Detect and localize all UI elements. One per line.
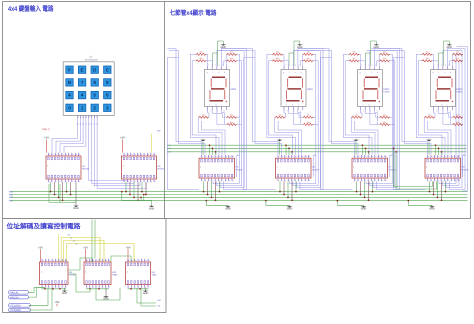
IC U9 74138 decoder [40, 259, 76, 289]
resistor network top-left of block 4 [422, 51, 433, 62]
net label +5V at latch block 3 [389, 154, 393, 177]
keypad key 8 [91, 79, 98, 86]
wire: horizontal green control line 1 [167, 144, 467, 146]
keypad key B [66, 79, 73, 86]
title: 4x4 keypad input circuit [8, 4, 54, 13]
IC U7 74HC573 latch block 3 [352, 155, 396, 182]
wire: latch outputs to bus block 2 [279, 181, 297, 201]
svg-text:9: 9 [132, 259, 133, 262]
svg-text:A0: A0 [68, 234, 70, 237]
svg-text:1: 1 [278, 179, 279, 182]
svg-text:2: 2 [80, 116, 81, 119]
wire: latch outputs to bus block 1 [203, 181, 221, 201]
svg-text:+5V: +5V [120, 136, 125, 140]
svg-text:8: 8 [302, 179, 303, 182]
keypad key 3 [104, 104, 111, 111]
svg-text:9: 9 [42, 259, 43, 262]
7-segment display LED1 [431, 64, 464, 113]
data bus net labels at left end [9, 191, 14, 203]
svg-text:9: 9 [87, 259, 88, 262]
svg-text:76143: 76143 [434, 64, 452, 67]
svg-text:HC574: HC574 [158, 168, 166, 171]
svg-text:PA(LA): PA(LA) [10, 292, 18, 295]
wire bus: segment lines resistors to latch block 1 [198, 117, 225, 155]
net label +5V at latch block 4 [462, 154, 466, 177]
svg-text:330: 330 [456, 114, 459, 117]
wire: left pair B cascade block 1 [168, 49, 206, 155]
svg-text:330: 330 [456, 51, 459, 54]
svg-text:+5V: +5V [125, 245, 130, 249]
svg-text:U2: U2 [82, 165, 86, 168]
svg-text:C1043: C1043 [456, 91, 463, 94]
svg-text:3: 3 [135, 285, 136, 288]
wire: tall left loop block 3 [320, 58, 352, 190]
svg-text:9: 9 [106, 80, 109, 85]
svg-text:330: 330 [200, 51, 203, 54]
wire bus: keypad rows to U2 (blue elbows) [52, 118, 86, 152]
resistor network top-left of block 3 [349, 51, 360, 62]
svg-text:5: 5 [441, 179, 442, 182]
svg-text:76143: 76143 [208, 64, 226, 67]
ground symbol small block 2 [277, 139, 283, 155]
keypad pins 1-8 with labels [76, 115, 99, 125]
svg-text:9: 9 [229, 179, 230, 182]
svg-text:U7: U7 [389, 166, 393, 169]
IC U5 74HC573 latch block 1 [199, 155, 243, 182]
svg-text:6: 6 [219, 179, 220, 182]
svg-text:330: 330 [383, 114, 386, 117]
resistor network bottom-left of block 4 [424, 114, 435, 119]
wire: bottom resistors to right cluster block 4 [456, 117, 463, 124]
net labels address lines A0-A3 with yellow stubs [59, 234, 78, 263]
resistor network bottom-right of block 1 [226, 114, 237, 126]
svg-text:2: 2 [282, 179, 283, 182]
svg-text:1: 1 [128, 285, 129, 288]
svg-text:3: 3 [56, 180, 57, 183]
keypad key A [66, 91, 73, 98]
svg-text:7: 7 [222, 179, 223, 182]
svg-text:5: 5 [56, 285, 57, 288]
svg-text:8: 8 [128, 259, 129, 262]
svg-text:GND: GND [287, 208, 293, 211]
svg-text:76143: 76143 [361, 64, 379, 67]
IC U2 74HC245 [46, 153, 90, 183]
ground symbol below latch block 3 [337, 200, 367, 211]
svg-text:3: 3 [285, 179, 286, 182]
svg-text:4: 4 [212, 179, 213, 182]
resistor network bottom-right of block 3 [379, 114, 390, 126]
title: 7-segment x4 display circuit [170, 9, 217, 17]
ground symbol below U3 with green return [121, 191, 155, 211]
wire: horizontal green control line 2 [167, 147, 467, 149]
power +5V for U11 [125, 245, 130, 262]
svg-text:330: 330 [202, 114, 205, 117]
wire: bottom resistors to right cluster block 3 [390, 117, 395, 124]
svg-text:GND: GND [361, 208, 367, 211]
svg-text:7: 7 [448, 179, 449, 182]
svg-text:6: 6 [92, 116, 93, 119]
svg-text:HC245: HC245 [82, 168, 90, 171]
resistor network top-left of block 2 [272, 51, 283, 62]
7-segment display LED4 [205, 64, 237, 113]
svg-text:6: 6 [295, 179, 296, 182]
wire: tall left loop block 2 [244, 58, 276, 190]
svg-text:GND: GND [225, 208, 231, 211]
svg-text:U9: U9 [69, 271, 73, 274]
resistor network top-right of block 2 [303, 51, 314, 62]
wire: top resistors to display pins block 3 [359, 54, 379, 66]
svg-text:5: 5 [368, 179, 369, 182]
wire: U2 ground pins to GND1 (green) [49, 184, 76, 202]
IC U8 74HC573 latch block 4 [425, 155, 469, 182]
svg-text:76143: 76143 [285, 64, 303, 67]
svg-text:e d c: e d c [435, 103, 450, 106]
svg-text:330: 330 [279, 114, 282, 117]
svg-text:3: 3 [131, 180, 132, 183]
keypad key C [104, 66, 111, 73]
svg-text:4: 4 [138, 285, 139, 288]
wire: yellow A-line runs to U10 U11 [61, 238, 134, 263]
svg-text:4: 4 [52, 285, 53, 288]
svg-text:330: 330 [428, 114, 431, 117]
net label +5V at latch block 2 [313, 154, 317, 177]
wire: display bottom pins to resistors block 2 [284, 110, 303, 124]
IC U10 7408 [84, 259, 118, 289]
wire: left pair A resistor feed block 2 [267, 54, 296, 155]
wire: U2 outputs to bus with junctions [50, 182, 72, 201]
wire: control line taps to latch block 4 [435, 144, 443, 154]
svg-text:7: 7 [144, 180, 145, 183]
wire: display bottom pins to resistors block 1 [208, 110, 227, 124]
ground symbol top of block 3 [366, 41, 380, 66]
svg-text:4: 4 [289, 179, 290, 182]
svg-text:1: 1 [87, 285, 88, 288]
svg-text:GND: GND [149, 207, 155, 210]
svg-text:3: 3 [362, 179, 363, 182]
svg-text:8: 8 [226, 179, 227, 182]
wire: left pair B cascade block 4 [366, 49, 431, 155]
svg-text:A2: A2 [73, 240, 75, 243]
svg-text:7: 7 [94, 116, 95, 119]
net label +5V at latch block 1 [236, 154, 240, 177]
svg-text:2: 2 [431, 179, 432, 182]
svg-text:330: 330 [307, 51, 310, 54]
svg-text:A1: A1 [70, 237, 72, 240]
ground symbol top of block 4 [439, 41, 453, 66]
svg-text:8: 8 [93, 80, 96, 85]
resistor network bottom-right of block 2 [303, 114, 314, 126]
wire: control line taps to latch block 3 [362, 144, 370, 154]
svg-text:U8: U8 [462, 166, 466, 169]
svg-text:7408: 7408 [112, 273, 118, 276]
wire: control line taps to latch block 1 [209, 144, 217, 154]
wire: latch outputs to bus block 4 [429, 181, 447, 201]
svg-text:1: 1 [428, 179, 429, 182]
net label +5V right (blue) [157, 130, 161, 133]
svg-text:U5: U5 [236, 166, 240, 169]
svg-text:GND: GND [447, 46, 453, 49]
svg-text:5: 5 [99, 285, 100, 288]
net labels WR RD right [158, 299, 162, 308]
svg-text:U10: U10 [112, 271, 117, 274]
svg-text:g f a b: g f a b [207, 71, 228, 74]
svg-text:A3: A3 [75, 243, 77, 246]
wire: top resistors to display pins block 4 [432, 54, 452, 66]
svg-text:2: 2 [93, 105, 96, 110]
svg-text:U6: U6 [312, 166, 316, 169]
ground symbol below latch block 1 [205, 200, 231, 211]
svg-text:4: 4 [59, 180, 60, 183]
svg-text:LED2: LED2 [383, 88, 389, 91]
svg-text:7: 7 [148, 285, 149, 288]
svg-text:4: 4 [86, 116, 87, 119]
svg-text:330: 330 [230, 57, 233, 60]
svg-text:330: 330 [200, 57, 203, 60]
svg-text:6: 6 [59, 285, 60, 288]
svg-text:GND: GND [62, 292, 68, 295]
wire: bottom resistors to right cluster block 1 [237, 117, 242, 124]
wire: U3 outputs to bus with junctions [125, 182, 147, 201]
keypad key 4 [78, 91, 85, 98]
port labels PA bus [9, 291, 29, 300]
svg-text:7404: 7404 [152, 273, 158, 276]
keypad U1 body [63, 62, 114, 116]
svg-text:PC2(WR): PC2(WR) [10, 309, 21, 312]
svg-text:5: 5 [89, 116, 90, 119]
wire: left pair A resistor feed block 3 [343, 54, 372, 155]
svg-text:3: 3 [93, 285, 94, 288]
keypad key 6 [104, 91, 111, 98]
ground symbol below U2 [73, 182, 79, 210]
ground symbol below latch block 4 [407, 200, 435, 211]
svg-text:9: 9 [382, 179, 383, 182]
svg-text:2: 2 [128, 180, 129, 183]
svg-text:3: 3 [49, 285, 50, 288]
svg-text:330: 330 [230, 51, 233, 54]
svg-text:9: 9 [151, 180, 152, 183]
sheet border top sections [3, 2, 471, 219]
power +5V for U9 [38, 245, 43, 262]
wire: right cluster loops block 4 [439, 49, 465, 190]
power +5V for U3 [120, 136, 125, 153]
control line net labels at left end [168, 144, 171, 154]
svg-text:F: F [68, 67, 71, 72]
ground symbol below U10 [103, 288, 109, 301]
wire bus: segment lines resistors to latch block 4 [424, 117, 451, 155]
ground symbol small block 1 [200, 139, 206, 155]
svg-text:+5V: +5V [54, 300, 59, 304]
ground symbol small block 4 [426, 139, 432, 155]
svg-text:6: 6 [372, 179, 373, 182]
svg-text:1: 1 [49, 180, 50, 183]
svg-text:GND: GND [73, 207, 79, 210]
svg-text:3: 3 [209, 179, 210, 182]
svg-text:1: 1 [355, 179, 356, 182]
svg-text:5: 5 [93, 93, 96, 98]
wire: left pair A resistor feed block 1 [190, 54, 219, 155]
port labels PC read/write [9, 304, 31, 313]
svg-text:8: 8 [452, 179, 453, 182]
wire: control line taps to latch block 2 [285, 144, 293, 154]
keypad key 5 [91, 91, 98, 98]
svg-text:330: 330 [355, 114, 358, 117]
keypad key F [66, 66, 73, 73]
svg-text:4: 4 [134, 180, 135, 183]
svg-text:2: 2 [52, 180, 53, 183]
svg-text:3: 3 [83, 116, 84, 119]
svg-text:g f a b: g f a b [360, 71, 381, 74]
svg-text:5: 5 [292, 179, 293, 182]
svg-text:PC1(RD): PC1(RD) [10, 305, 21, 308]
svg-text:6: 6 [103, 285, 104, 288]
svg-text:LED3: LED3 [307, 88, 313, 91]
wire: left pair A resistor feed block 4 [416, 54, 445, 155]
keypad key E [78, 66, 85, 73]
wire: horizontal green control line 3 [167, 151, 467, 153]
svg-text:330: 330 [230, 121, 233, 124]
wire: green control wiring [29, 220, 157, 311]
svg-text:4: 4 [96, 285, 97, 288]
wire: right cluster loops block 2 [290, 49, 324, 190]
svg-text:330: 330 [276, 51, 279, 54]
wire: tall left loop block 4 [393, 58, 425, 190]
svg-text:0: 0 [68, 105, 71, 110]
svg-text:WR: WR [158, 299, 162, 302]
svg-text:330: 330 [383, 51, 386, 54]
svg-text:g f a b: g f a b [283, 71, 304, 74]
resistor network top-right of block 3 [379, 51, 390, 62]
keypad key D [91, 66, 98, 73]
wire: latch outputs to bus block 3 [356, 181, 374, 201]
wire: far right loop block 4 [457, 47, 468, 191]
resistor network top-right of block 1 [226, 51, 237, 62]
svg-text:7: 7 [375, 179, 376, 182]
ground symbol below latch block 2 [265, 200, 292, 211]
svg-text:1: 1 [81, 105, 84, 110]
svg-text:e d c: e d c [362, 103, 377, 106]
svg-text:LED4: LED4 [230, 88, 236, 91]
svg-text:3: 3 [435, 179, 436, 182]
keypad key 7 [78, 79, 85, 86]
wire bus: keypad columns to U3 (blue elbows) [89, 118, 146, 188]
wire: left pair B cascade block 3 [293, 49, 358, 155]
wire: horizontal green bus line 3 [11, 196, 468, 198]
svg-text:2: 2 [205, 179, 206, 182]
wire: right cluster loops block 1 [213, 49, 247, 190]
svg-text:7: 7 [81, 80, 84, 85]
svg-text:2: 2 [358, 179, 359, 182]
ground symbol top of block 2 [289, 41, 303, 66]
power +5V bottom [54, 300, 59, 306]
svg-text:1: 1 [78, 116, 79, 119]
resistor network top-left of block 1 [196, 51, 207, 62]
svg-text:C1043: C1043 [383, 91, 390, 94]
svg-text:5: 5 [215, 179, 216, 182]
svg-text:PB0: PB0 [9, 191, 14, 194]
svg-text:8: 8 [97, 116, 98, 119]
ground symbol below U11 [143, 288, 149, 295]
svg-text:4: 4 [81, 93, 84, 98]
wire: yellow +5V drop to U3 [150, 134, 152, 153]
resistor network bottom-left of block 3 [351, 114, 362, 119]
svg-text:330: 330 [353, 57, 356, 60]
svg-text:8: 8 [148, 180, 149, 183]
IC U6 74HC573 latch block 2 [276, 155, 320, 182]
resistor network bottom-left of block 2 [275, 114, 286, 119]
svg-text:位址解碼及讀寫控制電路: 位址解碼及讀寫控制電路 [7, 223, 81, 231]
svg-text:2: 2 [46, 285, 47, 288]
svg-text:2: 2 [132, 285, 133, 288]
ground symbol below U9 [62, 288, 68, 295]
svg-text:g f a b: g f a b [433, 71, 454, 74]
wire: display bottom pins to resistors block 3 [361, 110, 380, 124]
svg-text:330: 330 [426, 57, 429, 60]
svg-text:+5V: +5V [83, 245, 88, 249]
svg-text:8: 8 [72, 180, 73, 183]
title: address decode and read/write control circuit [7, 223, 81, 231]
svg-text:+5V: +5V [44, 136, 49, 140]
wire: green return wrap block 4 [393, 148, 437, 189]
svg-text:LED1: LED1 [456, 88, 462, 91]
ground symbol small block 3 [353, 139, 359, 155]
svg-text:9: 9 [305, 179, 306, 182]
svg-text:8: 8 [379, 179, 380, 182]
svg-text:4x4 Keypad: 4x4 Keypad [85, 59, 98, 62]
svg-text:1: 1 [202, 179, 203, 182]
keypad U1 label [85, 56, 98, 62]
keypad key 9 [104, 79, 111, 86]
svg-text:+5V: +5V [157, 130, 161, 133]
svg-text:330: 330 [383, 57, 386, 60]
wire: tall left loop block 1 [167, 58, 199, 190]
svg-text:+5V: +5V [38, 245, 43, 249]
IC U11 7404 [126, 259, 158, 289]
wire: top resistors to display pins block 1 [206, 54, 226, 66]
svg-text:330: 330 [426, 51, 429, 54]
7-segment display LED2 [358, 64, 391, 113]
power +5V for U10 [83, 245, 88, 262]
svg-text:3: 3 [106, 105, 109, 110]
net label PB bus (red) [42, 128, 50, 131]
svg-text:6: 6 [106, 93, 109, 98]
svg-text:E: E [81, 67, 84, 72]
svg-text:七節管x4顯示 電路: 七節管x4顯示 電路 [170, 9, 217, 17]
svg-text:U11: U11 [152, 271, 157, 274]
resistor network bottom-left of block 1 [198, 114, 209, 119]
svg-text:e d c: e d c [286, 103, 301, 106]
svg-text:e d c: e d c [209, 103, 224, 106]
svg-text:GND: GND [143, 292, 149, 295]
IC U3 74HC574 [122, 153, 166, 183]
svg-text:5: 5 [142, 285, 143, 288]
svg-text:1: 1 [124, 180, 125, 183]
power +5V for U2 [44, 136, 49, 153]
svg-text:7: 7 [69, 180, 70, 183]
wire bus: segment lines resistors to latch block 2 [275, 117, 302, 155]
ground symbol top of block 1 [213, 41, 227, 66]
wire: bottom resistors to right cluster block 2 [314, 117, 319, 124]
svg-text:330: 330 [230, 114, 233, 117]
svg-text:330: 330 [307, 121, 310, 124]
svg-text:RD: RD [158, 305, 161, 308]
resistor network bottom-right of block 4 [452, 114, 463, 126]
svg-text:7: 7 [299, 179, 300, 182]
svg-text:8: 8 [66, 285, 67, 288]
svg-text:330: 330 [353, 51, 356, 54]
keypad key 1 [78, 104, 85, 111]
svg-text:330: 330 [307, 114, 310, 117]
wire: horizontal green bus line 2 [11, 194, 468, 196]
